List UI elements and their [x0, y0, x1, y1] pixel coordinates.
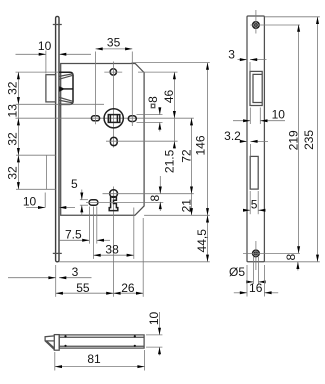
faceplate section: [54, 335, 59, 351]
svg-text:Ø5: Ø5: [229, 265, 245, 279]
faceplate bottom extension: [59, 261, 210, 263]
dim 10 deadbolt protrusion: [23, 193, 75, 210]
svg-text:32: 32: [6, 132, 20, 146]
dim 10 latch protrusion: [16, 39, 92, 73]
svg-text:5: 5: [71, 177, 78, 191]
svg-text:235: 235: [302, 130, 316, 150]
faceplate (edge view): [53, 16, 62, 261]
svg-text:3: 3: [72, 265, 79, 279]
dim 35 handle holes: [96, 36, 133, 127]
dim 3.2: [224, 129, 268, 157]
dim 5 deadbolt window: [243, 191, 265, 214]
dim 10 window width: [233, 107, 285, 124]
dim 7.5 slot width: [59, 227, 110, 242]
lower left slot hole: [86, 200, 163, 259]
dim 3 faceplate thickness: [8, 265, 92, 297]
bottom screw hole: [243, 241, 300, 270]
keyhole: [103, 190, 194, 211]
latch bolt head (protruding): [46, 75, 56, 102]
right handle screw slot: [128, 116, 136, 122]
svg-text:81: 81: [87, 352, 101, 366]
hub centerline vertical: [113, 62, 115, 148]
svg-text:5: 5: [251, 198, 258, 212]
svg-text:46: 46: [162, 90, 176, 104]
dim 55 / 26: [56, 218, 144, 297]
svg-text:219: 219: [286, 130, 300, 150]
deadbolt window: [250, 156, 258, 189]
svg-text:8: 8: [146, 96, 160, 103]
dim 72 / 21 chain: [179, 118, 193, 215]
svg-text:32: 32: [6, 166, 20, 180]
svg-text:8: 8: [148, 195, 162, 202]
lock case outline: [61, 64, 144, 216]
hub circle: [104, 109, 123, 128]
svg-text:35: 35: [107, 36, 121, 50]
svg-text:16: 16: [249, 281, 263, 295]
dim 146 / 44,5 chain: [132, 63, 210, 262]
svg-text:21.5: 21.5: [163, 149, 177, 173]
dim 46 / 21.5 chain: [138, 72, 178, 173]
latch bolt bottom view (wedge): [45, 336, 54, 350]
top screw hole: [251, 10, 300, 34]
svg-text:10: 10: [23, 195, 37, 209]
svg-text:32: 32: [6, 81, 20, 95]
svg-text:8: 8: [284, 253, 298, 260]
svg-text:146: 146: [193, 135, 207, 155]
dim 16 plate width: [234, 265, 278, 297]
dim 8 keyhole to slots: [148, 176, 162, 211]
dim 5 slot height: [71, 177, 88, 216]
svg-text:7.5: 7.5: [65, 227, 82, 241]
svg-text:13: 13: [6, 104, 20, 118]
dim 8 bottom hole: [265, 253, 320, 270]
left handle screw slot: [91, 116, 99, 121]
svg-text:38: 38: [105, 242, 119, 256]
svg-text:10: 10: [38, 39, 52, 53]
hub centerline horizontal: [16, 117, 194, 119]
left dim chain 32/13/32/32: [6, 72, 104, 189]
svg-text:10: 10: [147, 312, 161, 326]
dim 219: [286, 25, 300, 254]
svg-text:21: 21: [180, 199, 194, 213]
dim square-8 hub: [137, 96, 163, 132]
top fixing hole: [104, 69, 122, 75]
plate outline: [247, 16, 264, 262]
svg-text:10: 10: [272, 107, 286, 121]
svg-text:3.2: 3.2: [224, 129, 241, 143]
spindle square 8mm: [108, 115, 120, 123]
dim diam 5: [229, 257, 266, 284]
dim 38: [94, 208, 134, 259]
latch window: [250, 71, 262, 105]
dim 3 plate lip: [228, 47, 266, 71]
deadbolt thrown (phantom): [16, 155, 56, 189]
case bottom edge view: [59, 335, 144, 348]
dim 235: [265, 17, 320, 262]
keyhole / bottom centerline vertical: [113, 187, 115, 297]
svg-text:72: 72: [179, 149, 193, 163]
svg-text:3: 3: [228, 47, 235, 61]
svg-text:44,5: 44,5: [195, 229, 209, 253]
dim 10 case thickness: [146, 312, 162, 356]
latch bolt body in case: [59, 72, 73, 104]
lower guide hole below hub: [106, 137, 178, 145]
dim 81: [55, 350, 145, 371]
